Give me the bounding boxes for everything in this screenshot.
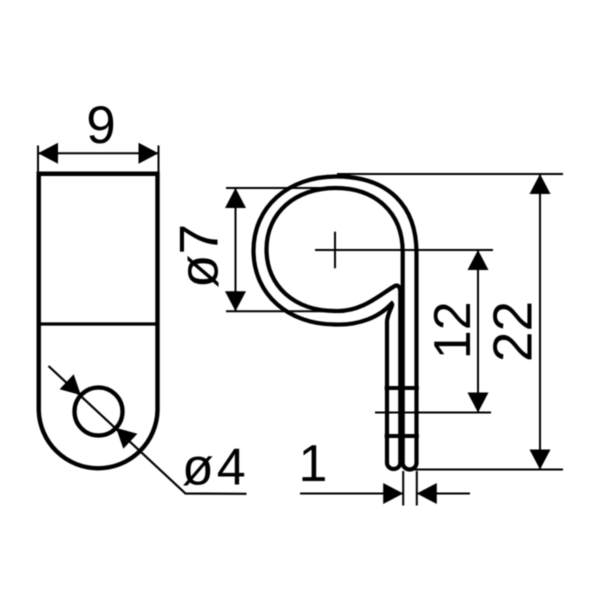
svg-text:ø7: ø7 [168,224,230,288]
dimension 22 extension line bottom [409,469,563,471]
dimension 12 arrow bottom [468,393,489,413]
dimension 9 line [38,152,159,154]
dimension ø7 line [235,188,237,311]
svg-text:9: 9 [86,96,115,155]
dimension 12 arrow top [468,250,489,270]
leader arrowhead upper (tip on circle, pointing down-right) [60,374,81,395]
dimension 1 arrow left (pointing right) [383,483,403,504]
center cross horizontal (also ext line for 12) [315,249,493,251]
side view clip profile (right): closed strip outline [254,177,417,470]
front view divider line [39,322,158,325]
dimension 1 arrow right (pointing left) [417,483,437,504]
dimension 9 arrow left [38,143,58,164]
dimension ø7 arrow bottom [225,291,246,311]
dimension 22 extension line top [337,173,563,175]
dimension 12 extension line bottom [375,412,491,414]
dimension 1 extension line right [416,471,418,506]
center cross vertical [334,232,336,269]
svg-text:12: 12 [424,301,482,359]
dimension 22 arrow top [530,174,551,194]
dimension 1 extension line left [402,471,404,506]
tail break tick lower [385,434,419,438]
svg-text:1: 1 [299,435,328,493]
dimension 9 extension line left [37,146,39,173]
dimension 22 line [539,174,541,470]
dimension 22 arrow bottom [530,450,551,470]
leader line for ø4 [49,366,247,494]
svg-text:ø4: ø4 [182,439,249,497]
svg-text:22: 22 [482,301,544,362]
dimension ø7 extension line bottom [226,310,336,312]
tail break tick upper [385,386,419,390]
dimension 1 line left part [300,493,403,495]
hole circle ø4 [75,388,123,436]
front view outline (clamp body, left) [39,172,158,469]
leader arrowhead lower (tip on circle, pointing up-left) [116,428,137,449]
dimension 9 arrow right [139,143,159,164]
dimension 9 extension line right [158,146,160,173]
dimension 12 line [477,250,479,413]
dimension ø7 extension line top [226,187,336,189]
dimension 1 line right part [417,493,470,495]
dimension ø7 arrow top [225,188,246,208]
